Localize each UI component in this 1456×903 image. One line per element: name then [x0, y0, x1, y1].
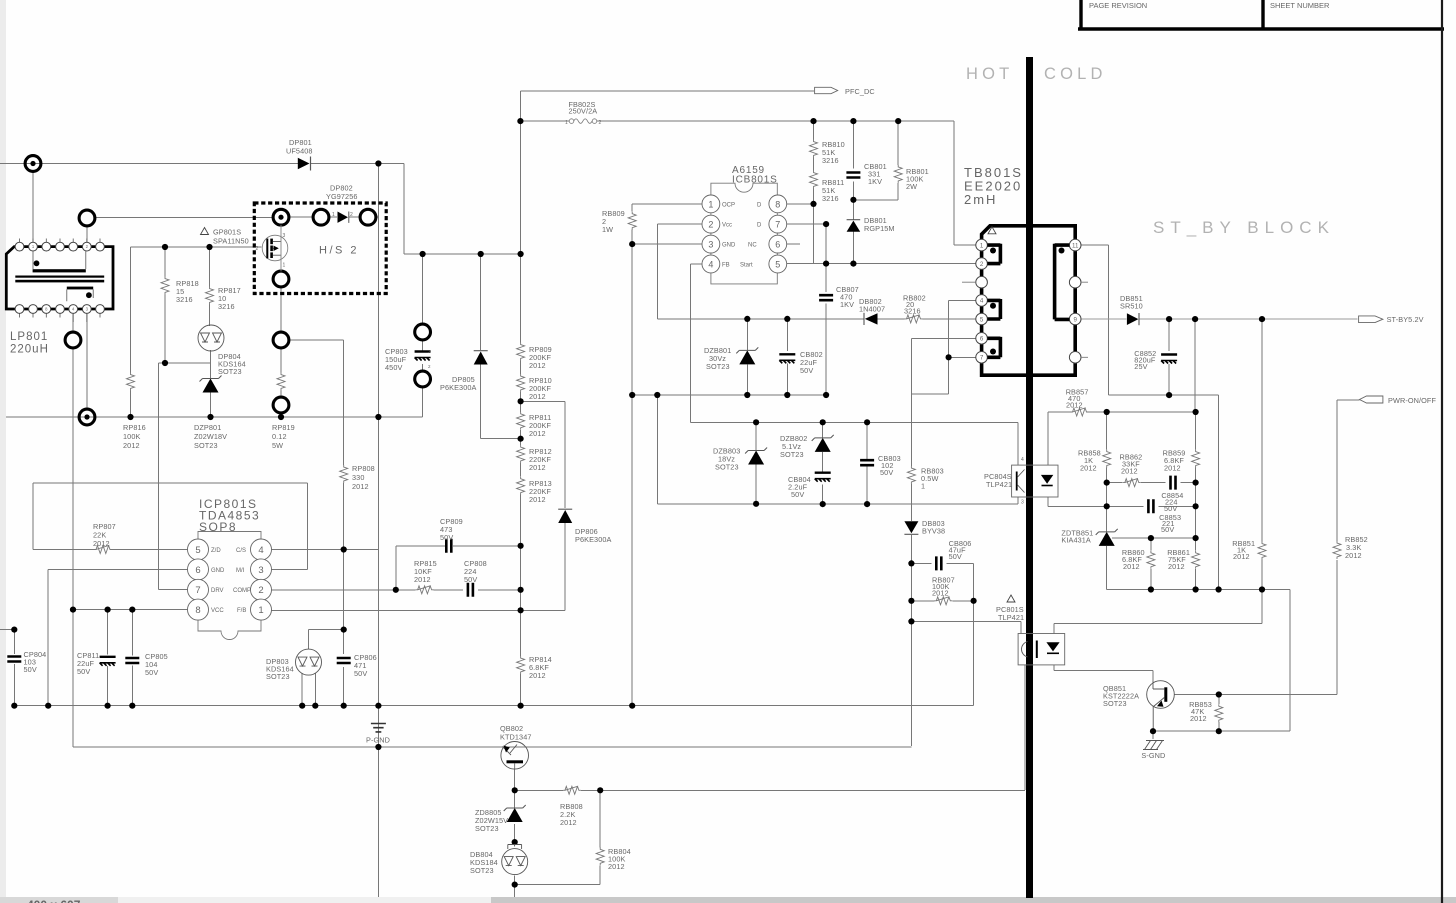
svg-text:400 x 607: 400 x 607	[27, 898, 81, 903]
svg-text:7: 7	[980, 355, 984, 362]
svg-text:2012: 2012	[1066, 401, 1083, 410]
svg-text:DZP801: DZP801	[194, 423, 221, 432]
svg-text:4: 4	[980, 298, 984, 305]
svg-text:RGP15M: RGP15M	[864, 224, 895, 233]
svg-text:SOT23: SOT23	[475, 824, 499, 833]
svg-text:1KV: 1KV	[868, 177, 882, 186]
svg-text:SOT23: SOT23	[715, 463, 739, 472]
svg-text:HOT: HOT	[966, 65, 1013, 83]
svg-text:50V: 50V	[949, 552, 962, 561]
svg-text:2012: 2012	[1345, 551, 1362, 560]
svg-text:SOT23: SOT23	[780, 450, 804, 459]
svg-text:7: 7	[775, 220, 780, 230]
svg-text:220uH: 220uH	[10, 344, 49, 356]
svg-text:9: 9	[1073, 316, 1077, 323]
svg-text:D: D	[757, 223, 762, 229]
svg-text:6: 6	[195, 565, 200, 576]
svg-text:6: 6	[980, 336, 984, 343]
svg-text:1: 1	[708, 199, 713, 209]
svg-text:1N4007: 1N4007	[859, 305, 885, 314]
svg-text:50V: 50V	[1164, 504, 1177, 513]
svg-text:2012: 2012	[529, 429, 546, 438]
svg-text:3216: 3216	[218, 302, 235, 311]
svg-text:DRV: DRV	[211, 588, 224, 594]
svg-text:2: 2	[428, 364, 431, 369]
svg-text:Vcc: Vcc	[722, 223, 732, 229]
svg-text:4: 4	[258, 545, 263, 556]
svg-text:GP801S: GP801S	[213, 228, 241, 237]
svg-text:3216: 3216	[822, 156, 839, 165]
svg-text:1: 1	[283, 263, 286, 269]
svg-text:P-GND: P-GND	[366, 736, 390, 745]
svg-text:M/I: M/I	[236, 568, 245, 574]
svg-text:TLP421: TLP421	[986, 480, 1012, 489]
svg-text:SOT23: SOT23	[1103, 699, 1127, 708]
svg-text:SOT23: SOT23	[706, 362, 730, 371]
svg-text:50V: 50V	[880, 468, 893, 477]
svg-text:PAGE REVISION: PAGE REVISION	[1089, 1, 1147, 10]
svg-text:2: 2	[708, 220, 713, 230]
svg-text:2: 2	[256, 246, 259, 252]
svg-text:SHEET NUMBER: SHEET NUMBER	[1270, 1, 1330, 10]
svg-text:1: 1	[921, 482, 925, 491]
svg-text:450V: 450V	[385, 363, 402, 372]
svg-text:RP816: RP816	[123, 423, 146, 432]
svg-text:2012: 2012	[529, 392, 546, 401]
svg-text:1W: 1W	[602, 225, 613, 234]
svg-text:2012: 2012	[414, 575, 431, 584]
svg-text:2012: 2012	[1168, 562, 1185, 571]
svg-text:2012: 2012	[1080, 464, 1097, 473]
svg-text:250V/2A: 250V/2A	[569, 107, 598, 116]
svg-text:2012: 2012	[1190, 714, 1207, 723]
svg-text:2012: 2012	[932, 589, 949, 598]
svg-text:VCC: VCC	[211, 608, 224, 614]
svg-text:D: D	[757, 202, 762, 208]
svg-text:2W: 2W	[906, 182, 917, 191]
svg-text:2012: 2012	[529, 463, 546, 472]
svg-text:2012: 2012	[529, 671, 546, 680]
svg-text:SOP8: SOP8	[199, 520, 237, 534]
svg-text:2012: 2012	[352, 482, 369, 491]
svg-text:1: 1	[980, 242, 984, 249]
svg-text:C/S: C/S	[236, 548, 246, 554]
svg-text:4: 4	[1021, 457, 1024, 463]
svg-text:50V: 50V	[440, 533, 453, 542]
svg-text:P6KE300A: P6KE300A	[575, 535, 612, 544]
svg-text:5: 5	[195, 545, 200, 556]
svg-text:2: 2	[350, 212, 353, 218]
svg-text:2mH: 2mH	[964, 192, 997, 207]
svg-text:1KV: 1KV	[840, 300, 854, 309]
svg-text:50V: 50V	[800, 366, 813, 375]
svg-text:5: 5	[775, 260, 780, 270]
svg-text:2012: 2012	[560, 818, 577, 827]
svg-text:2012: 2012	[123, 441, 140, 450]
svg-text:FB: FB	[722, 263, 730, 269]
svg-text:BYV38: BYV38	[922, 527, 945, 536]
svg-text:1: 1	[258, 605, 263, 616]
svg-text:3216: 3216	[904, 307, 921, 316]
svg-text:RP808: RP808	[352, 464, 375, 473]
svg-text:50V: 50V	[791, 490, 804, 499]
svg-text:RP819: RP819	[272, 423, 295, 432]
svg-text:NC: NC	[748, 243, 757, 249]
svg-text:1: 1	[332, 212, 335, 218]
svg-text:3216: 3216	[176, 295, 193, 304]
svg-text:25V: 25V	[1134, 362, 1147, 371]
svg-text:ST_BY BLOCK: ST_BY BLOCK	[1153, 218, 1335, 237]
svg-text:2012: 2012	[608, 862, 625, 871]
svg-text:Z02W18V: Z02W18V	[194, 432, 227, 441]
svg-text:5: 5	[980, 316, 984, 323]
svg-text:50V: 50V	[1161, 525, 1174, 534]
svg-text:3: 3	[258, 565, 263, 576]
svg-text:2012: 2012	[529, 361, 546, 370]
svg-text:1: 1	[565, 120, 568, 126]
svg-text:Z/D: Z/D	[211, 548, 221, 554]
svg-text:100K: 100K	[123, 432, 140, 441]
svg-text:11: 11	[1072, 243, 1079, 250]
svg-text:50V: 50V	[24, 665, 37, 674]
svg-text:2012: 2012	[93, 539, 110, 548]
svg-text:5W: 5W	[272, 441, 283, 450]
svg-text:PFC_DC: PFC_DC	[845, 87, 875, 96]
svg-text:OCP: OCP	[722, 202, 735, 208]
svg-text:6: 6	[775, 240, 780, 250]
svg-text:4: 4	[708, 260, 713, 270]
svg-text:Start: Start	[740, 263, 753, 269]
svg-text:3: 3	[1021, 500, 1024, 506]
svg-text:8: 8	[775, 199, 780, 209]
svg-text:GND: GND	[211, 568, 225, 574]
svg-text:PWR-ON/OFF: PWR-ON/OFF	[1388, 396, 1436, 405]
svg-text:KTD1347: KTD1347	[500, 733, 532, 742]
svg-text:0.12: 0.12	[272, 432, 287, 441]
svg-text:F/B: F/B	[237, 608, 246, 614]
svg-text:2012: 2012	[1121, 467, 1138, 476]
svg-text:2012: 2012	[1123, 562, 1140, 571]
svg-text:S-GND: S-GND	[1141, 751, 1165, 760]
svg-text:COMP: COMP	[233, 588, 251, 594]
svg-text:2012: 2012	[1164, 464, 1181, 473]
svg-text:UF5408: UF5408	[286, 147, 313, 156]
svg-text:8: 8	[195, 605, 200, 616]
svg-text:50V: 50V	[464, 575, 477, 584]
svg-text:50V: 50V	[77, 667, 90, 676]
svg-text:SOT23: SOT23	[470, 866, 494, 875]
svg-text:ST-BY5.2V: ST-BY5.2V	[1387, 315, 1424, 324]
svg-text:H/S 2: H/S 2	[319, 245, 359, 257]
svg-text:SOT23: SOT23	[194, 441, 218, 450]
svg-text:2: 2	[599, 120, 602, 126]
svg-text:2012: 2012	[1233, 552, 1250, 561]
svg-text:YG97256: YG97256	[326, 192, 358, 201]
svg-text:LP801: LP801	[10, 331, 48, 343]
svg-text:50V: 50V	[354, 669, 367, 678]
svg-text:SR510: SR510	[1120, 302, 1143, 311]
svg-text:3216: 3216	[822, 194, 839, 203]
svg-text:2: 2	[258, 585, 263, 596]
svg-text:3: 3	[283, 233, 286, 239]
svg-text:2012: 2012	[529, 495, 546, 504]
svg-text:SPA11N50: SPA11N50	[213, 237, 249, 246]
svg-text:3: 3	[708, 240, 713, 250]
svg-text:KIA431A: KIA431A	[1061, 536, 1091, 545]
svg-text:2: 2	[980, 261, 984, 268]
svg-text:50V: 50V	[145, 668, 158, 677]
svg-text:SOT23: SOT23	[266, 672, 290, 681]
svg-text:COLD: COLD	[1044, 65, 1107, 83]
svg-text:SOT23: SOT23	[218, 367, 242, 376]
svg-text:330: 330	[352, 473, 364, 482]
svg-text:ICB801S: ICB801S	[732, 175, 778, 186]
svg-text:TLP421: TLP421	[998, 613, 1024, 622]
svg-text:GND: GND	[722, 243, 736, 249]
svg-text:P6KE300A: P6KE300A	[440, 383, 477, 392]
svg-text:7: 7	[195, 585, 200, 596]
